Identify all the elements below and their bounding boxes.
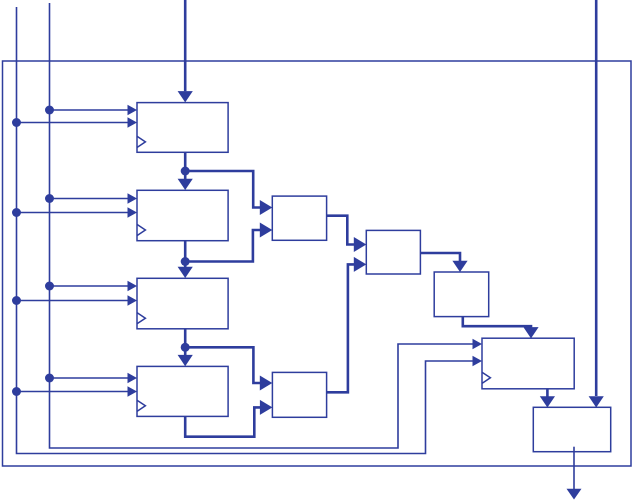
wire: R5 output to output block	[546, 389, 549, 397]
register R4	[137, 366, 228, 416]
register R1	[137, 103, 228, 153]
node: junction under R1	[181, 167, 190, 176]
wire: serial input to R1 clock-domain (thick vertical)	[184, 0, 187, 91]
wire: R2 output to R3 (thick, with junction)	[184, 241, 187, 268]
adder B	[366, 230, 420, 274]
wire: right-side input down to output block	[595, 0, 598, 396]
wire: block D output to R5 input	[463, 317, 531, 328]
wire: R3 output to R4 (thick, with junction)	[184, 329, 187, 356]
node: junction on bus A for R4 input 2	[12, 387, 21, 396]
block D	[434, 272, 489, 317]
wire: R1 input 2	[17, 122, 128, 124]
node: junction on bus A for R2 input 2	[12, 208, 21, 217]
register R5	[482, 338, 574, 389]
wire: tap from R1 output to adder A input 1	[185, 171, 260, 208]
wire: R1 input 1	[50, 109, 128, 111]
wire: left bus line A (x=16) routed to R5 input 2	[17, 7, 473, 454]
wire: left bus line B (x=49) routed to R5 input 1	[50, 3, 473, 448]
wire: R4 input 1	[50, 377, 128, 379]
adder C	[272, 372, 326, 417]
wire: R2 input 2	[17, 212, 128, 214]
node: junction under R3	[181, 343, 190, 352]
node: junction on bus B for R4 input 1	[45, 374, 54, 383]
node: junction on bus A for R1 input 2	[12, 118, 21, 127]
wire: R2 input 1	[50, 198, 128, 200]
adder A	[272, 196, 326, 240]
register R3	[137, 278, 228, 329]
register R2	[137, 190, 228, 240]
wire: adder C output to adder B input 2	[327, 264, 355, 392]
node: junction on bus B for R1 input 1	[45, 106, 54, 115]
node: junction on bus B for R2 input 1	[45, 194, 54, 203]
wire: final output with arrow	[573, 447, 575, 489]
wire: tap from R3 output to adder C input 1	[185, 347, 260, 383]
wire: R1 output to R2 (thick, with junction)	[184, 152, 187, 179]
wire: R4 input 2	[17, 391, 128, 393]
node: junction on bus A for R3 input 2	[12, 296, 21, 305]
node: junction on bus B for R3 input 1	[45, 282, 54, 291]
wire: R3 input 1	[50, 285, 128, 287]
wire: adder B output to block D	[420, 253, 460, 261]
wire: tap from R2 output to adder A input 2	[185, 230, 260, 262]
wire: adder A output to adder B input 1	[327, 216, 355, 245]
output block F	[533, 407, 610, 451]
wire: R4 output feedback to adder C input 2	[185, 407, 260, 436]
wire: R3 input 2	[17, 300, 128, 302]
node: junction under R2	[181, 257, 190, 266]
